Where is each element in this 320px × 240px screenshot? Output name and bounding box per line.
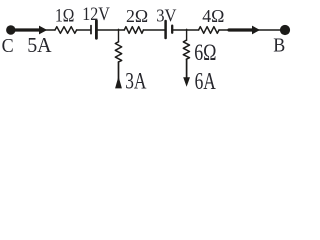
- svg-text:1Ω: 1Ω: [55, 5, 74, 26]
- current arrow toward B shaft: [229, 28, 252, 31]
- resistor R1 1-ohm: [55, 27, 77, 34]
- current arrow 5A shaft: [16, 28, 40, 31]
- current arrow toward B head: [252, 26, 260, 35]
- battery 12V short plate (negative): [90, 26, 92, 34]
- current arrow 5A head: [39, 26, 47, 35]
- wire junction 1 down: [118, 29, 120, 42]
- current arrow 6A head (down): [183, 77, 190, 87]
- wire 4-ohm to node B: [219, 29, 281, 31]
- wire 3V battery to 4-ohm resistor: [173, 29, 198, 31]
- node C: [6, 25, 15, 34]
- wire 1-ohm to 12V battery: [77, 29, 91, 31]
- node B: [280, 25, 290, 35]
- battery 3V tall plate (positive): [164, 21, 167, 38]
- battery 12V tall plate (positive): [95, 21, 98, 38]
- current arrow 3A head (up): [115, 76, 122, 88]
- wire branch 2 down to arrow: [186, 59, 188, 80]
- svg-text:B: B: [273, 35, 285, 57]
- resistor R2 2-ohm: [124, 27, 143, 34]
- battery 3V short plate (negative): [171, 26, 173, 33]
- svg-text:C: C: [2, 35, 14, 57]
- svg-text:5A: 5A: [27, 35, 52, 58]
- svg-text:4Ω: 4Ω: [202, 6, 224, 26]
- resistor R4 6-ohm vertical: [183, 40, 189, 59]
- svg-text:6Ω: 6Ω: [194, 41, 216, 66]
- wire junction 2 down: [186, 29, 188, 40]
- svg-text:3V: 3V: [156, 4, 177, 25]
- wire C to 1-ohm resistor: [15, 29, 55, 31]
- svg-text:3A: 3A: [125, 69, 146, 94]
- wire 2-ohm to 3V battery: [143, 29, 164, 31]
- wire branch 1 down to arrow: [118, 62, 120, 86]
- resistor R3 4-ohm: [199, 27, 219, 34]
- svg-text:6A: 6A: [195, 67, 217, 95]
- svg-text:2Ω: 2Ω: [126, 6, 148, 26]
- svg-text:12V: 12V: [82, 4, 110, 24]
- wire 12V battery to 2-ohm resistor: [98, 29, 125, 31]
- resistor vertical branch 1: [115, 42, 121, 62]
